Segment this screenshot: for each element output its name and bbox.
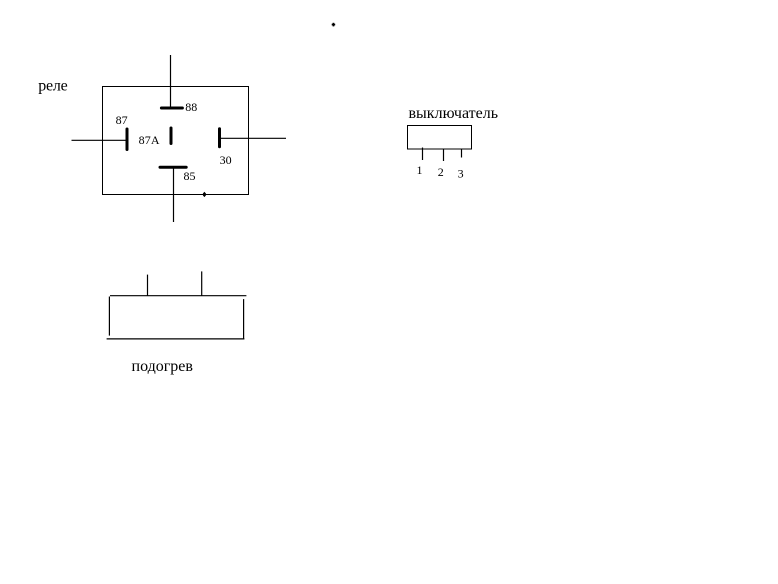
wire from pin 30 (right lead) [221, 137, 286, 139]
heater bottom edge [107, 338, 245, 340]
switch pin 2 lead [443, 149, 445, 161]
svg-text:30: 30 [220, 153, 232, 167]
wire to pin 88 (top lead) [170, 55, 172, 108]
pin 85 contact bar [160, 166, 186, 169]
heater left pin lead [147, 275, 149, 296]
svg-text:1: 1 [417, 163, 423, 177]
junction node on relay bottom edge [203, 192, 207, 197]
pin 87A contact bar [170, 128, 173, 144]
svg-text:выключатель: выключатель [409, 105, 499, 122]
relay K1 body [103, 87, 249, 195]
svg-text:87A: 87A [139, 133, 160, 147]
heater right edge [243, 299, 245, 339]
switch pin 1 lead [422, 148, 424, 161]
stray plus dot node [332, 23, 336, 27]
svg-text:88: 88 [185, 100, 197, 114]
wire from pin 85 (bottom lead) [173, 168, 175, 222]
svg-text:87: 87 [116, 113, 128, 127]
heater top edge [110, 295, 246, 297]
svg-text:2: 2 [438, 165, 444, 179]
heater element body (open rectangle, four strokes) [107, 271, 247, 339]
pin 87 contact bar [126, 129, 129, 150]
svg-text:85: 85 [184, 169, 196, 183]
pin 30 contact bar [218, 129, 221, 147]
switch S1 body [408, 126, 472, 150]
pin 88 contact bar [161, 107, 182, 110]
svg-text:реле: реле [38, 77, 67, 94]
heater right pin lead [201, 271, 203, 295]
svg-text:3: 3 [458, 167, 464, 181]
switch pin 3 lead [461, 150, 463, 158]
heater left edge [108, 297, 110, 336]
wire to pin 87 (left lead) [72, 139, 127, 141]
svg-text:подогрев: подогрев [132, 358, 194, 375]
